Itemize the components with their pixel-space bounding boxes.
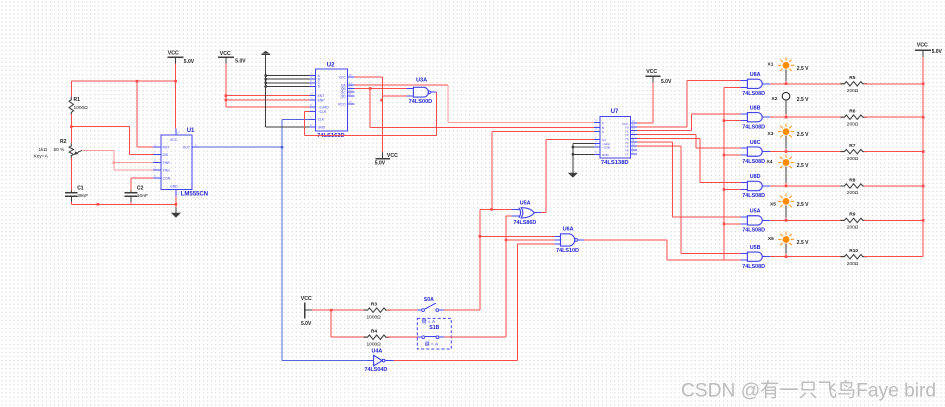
lamp X1 2.5V bbox=[778, 57, 794, 73]
power VCC5 5.0V right bbox=[915, 49, 931, 51]
gate U8B 74LS08D AND bbox=[747, 113, 762, 122]
wire R1 node to U1 DIS bbox=[71, 126, 129, 128]
wire bottom ground bus bbox=[71, 203, 176, 205]
gate U3A 74LS00D NAND bbox=[413, 87, 428, 97]
junction ENP bbox=[225, 99, 228, 102]
gate U5A 74LS08D AND bbox=[747, 216, 762, 225]
junction OUT net bbox=[281, 146, 284, 149]
IC U2 74LS163D counter bbox=[316, 69, 348, 131]
wire S0A up to node bbox=[444, 309, 480, 311]
svg-text:~G2B: ~G2B bbox=[602, 146, 610, 150]
svg-text:5.0V: 5.0V bbox=[661, 79, 672, 85]
wire U5A output to lamp node bbox=[770, 219, 786, 221]
svg-text:VCC: VCC bbox=[168, 50, 179, 56]
wire U1 GND down bbox=[175, 196, 177, 207]
svg-text:1000Ω: 1000Ω bbox=[367, 341, 382, 347]
ground above U2 bbox=[262, 53, 271, 55]
svg-text:R9: R9 bbox=[849, 212, 855, 218]
svg-text:74LS138D: 74LS138D bbox=[601, 160, 629, 166]
svg-text:200Ω: 200Ω bbox=[847, 121, 859, 127]
svg-text:U8C: U8C bbox=[750, 140, 761, 146]
svg-text:1kΩ: 1kΩ bbox=[39, 147, 48, 153]
svg-text:50 %: 50 % bbox=[54, 147, 66, 153]
svg-text:S0A: S0A bbox=[424, 297, 434, 303]
lamp X6 2.5V bbox=[778, 232, 794, 248]
svg-text:1000Ω: 1000Ω bbox=[74, 105, 89, 111]
svg-text:200Ω: 200Ω bbox=[847, 88, 859, 94]
pins U1 bbox=[153, 146, 161, 148]
lamp X3 2.5V bbox=[778, 124, 794, 140]
resistor R3 1000ohm bbox=[364, 308, 391, 312]
svg-text:GND: GND bbox=[318, 126, 326, 130]
wire lamp node to R7 bbox=[786, 151, 845, 153]
svg-text:5.0V: 5.0V bbox=[235, 59, 246, 65]
junction VCC1 rail bbox=[174, 80, 177, 83]
capacitor C1 39nF bbox=[65, 192, 78, 194]
wire QA to U7 A bbox=[355, 84, 449, 86]
svg-text:TRG: TRG bbox=[163, 168, 171, 172]
svg-text:74LS08D: 74LS08D bbox=[742, 91, 765, 97]
svg-text:74LS08D: 74LS08D bbox=[742, 264, 765, 270]
svg-text:OUT: OUT bbox=[183, 146, 191, 150]
resistor R1 1000ohm bbox=[69, 97, 73, 115]
wire S0A net to U6A top input bbox=[480, 235, 555, 237]
power VCC1 5.0V bbox=[168, 56, 184, 58]
resistor R5 200ohm bbox=[840, 82, 867, 86]
wire CON to C2 bbox=[131, 177, 153, 179]
svg-text:U8D: U8D bbox=[750, 174, 761, 180]
wire R5 to VCC rail bbox=[864, 83, 923, 85]
svg-text:LM555CN: LM555CN bbox=[181, 192, 208, 198]
svg-text:GND: GND bbox=[602, 153, 610, 157]
wire U6A output distribution vertical bbox=[723, 87, 725, 260]
wire CLR reset loop from U3A bbox=[305, 111, 310, 113]
gate U5A 74LS86D XOR bbox=[519, 208, 521, 218]
junction rail RST branch bbox=[136, 80, 139, 83]
svg-text:VCC: VCC bbox=[301, 296, 312, 302]
svg-text:VCC: VCC bbox=[646, 69, 657, 75]
wire U8D output to lamp node bbox=[770, 185, 786, 187]
svg-text:C1: C1 bbox=[77, 185, 84, 191]
svg-text:U4A: U4A bbox=[372, 349, 383, 355]
svg-text:74LS04D: 74LS04D bbox=[365, 367, 388, 373]
gate U8D 74LS08D AND bbox=[747, 181, 762, 190]
svg-text:U7: U7 bbox=[611, 109, 619, 115]
switch S1B key A dashed box bbox=[417, 318, 451, 349]
lamp X2 2.5V bbox=[782, 92, 790, 100]
svg-text:QD: QD bbox=[341, 95, 347, 99]
wire VCC4 to R3 bbox=[312, 309, 368, 311]
wire R9 to VCC rail bbox=[864, 219, 923, 221]
wire lamp node to R10 bbox=[786, 256, 845, 258]
wire QB to U3A and U7 B bbox=[355, 87, 407, 89]
wire U6A output to U5B bbox=[584, 239, 667, 241]
svg-text:2.5 V: 2.5 V bbox=[797, 97, 809, 103]
svg-text:VCC: VCC bbox=[387, 153, 398, 159]
resistor R4 1000ohm bbox=[364, 335, 391, 339]
svg-text:ENP: ENP bbox=[318, 98, 326, 102]
svg-text:39nF: 39nF bbox=[77, 193, 88, 199]
svg-text:S1B: S1B bbox=[429, 325, 439, 331]
svg-text:U8B: U8B bbox=[750, 105, 761, 111]
wire R1 bottom bbox=[70, 114, 72, 127]
gate U8C 74LS08D AND bbox=[747, 147, 762, 156]
svg-text:74LS08D: 74LS08D bbox=[742, 228, 765, 234]
wire R10 to VCC rail bbox=[864, 256, 923, 258]
wire RST feed bbox=[136, 81, 138, 147]
wire right VCC rail bbox=[922, 57, 924, 257]
svg-text:R8: R8 bbox=[849, 177, 855, 183]
junction S0A net at U6A input bbox=[479, 235, 482, 238]
wire XOR output to U7 G1 bbox=[541, 212, 546, 214]
IC U1 LM555CN timer bbox=[161, 135, 192, 189]
wire lamp node to R9 bbox=[786, 219, 845, 221]
svg-text:R5: R5 bbox=[849, 75, 855, 81]
svg-text:200Ω: 200Ω bbox=[847, 190, 859, 196]
switch S0A key A bbox=[418, 309, 422, 311]
wire R8 to VCC rail bbox=[864, 185, 923, 187]
wire R6 to VCC rail bbox=[864, 116, 923, 118]
svg-text:U1: U1 bbox=[187, 128, 195, 134]
svg-text:R4: R4 bbox=[371, 329, 377, 335]
svg-text:200Ω: 200Ω bbox=[847, 156, 859, 162]
svg-text:C2: C2 bbox=[137, 185, 144, 191]
wire U8A output to lamp node bbox=[770, 83, 786, 85]
svg-text:U5A: U5A bbox=[750, 209, 761, 215]
junction U1 GND node bbox=[175, 203, 178, 206]
lamp X5 2.5V bbox=[778, 193, 794, 209]
wire U1 OUT blue net bbox=[200, 146, 283, 148]
lamp X4 2.5V bbox=[778, 155, 794, 171]
wire C2 bottom bbox=[130, 196, 132, 202]
power VCC2 5.0V bbox=[218, 56, 234, 58]
svg-text:15: 15 bbox=[349, 100, 353, 104]
gate U6A 74LS10D NAND3 bbox=[561, 234, 575, 246]
wire VCC2 to ENT ENP LOAD bbox=[225, 64, 227, 108]
svg-text:74LS163D: 74LS163D bbox=[317, 133, 345, 139]
wire ground to U2 GND bbox=[266, 126, 310, 128]
svg-text:CLK: CLK bbox=[318, 118, 325, 122]
svg-text:X4: X4 bbox=[767, 159, 773, 165]
svg-text:R2: R2 bbox=[60, 139, 67, 145]
junction QB branch bbox=[369, 87, 372, 90]
wire node to XOR top input bbox=[492, 208, 512, 210]
svg-text:GND: GND bbox=[170, 185, 178, 189]
wires U7 Y0-Y5 to AND gates bbox=[637, 126, 687, 128]
svg-text:74LS08D: 74LS08D bbox=[742, 193, 765, 199]
svg-text:2.5 V: 2.5 V bbox=[797, 132, 809, 138]
wire ground bus to U2 inputs bbox=[265, 54, 267, 127]
wire VCC branch to U3A input bbox=[383, 95, 407, 97]
svg-text:R1: R1 bbox=[74, 97, 81, 103]
junction S1B net at U6A input bbox=[505, 239, 508, 242]
svg-text:X5: X5 bbox=[770, 202, 776, 208]
svg-text:R6: R6 bbox=[849, 109, 855, 115]
wire U5B output to lamp node bbox=[770, 256, 786, 258]
svg-text:2.5 V: 2.5 V bbox=[797, 66, 809, 72]
svg-text:U8A: U8A bbox=[750, 72, 761, 78]
svg-text:DIS: DIS bbox=[163, 153, 170, 157]
inverter U4A 74LS04D bbox=[367, 360, 373, 362]
wire U8C output to lamp node bbox=[770, 151, 786, 153]
svg-text:R3: R3 bbox=[371, 301, 377, 307]
svg-text:Y7: Y7 bbox=[625, 152, 629, 156]
resistor R9 200ohm bbox=[840, 218, 867, 222]
svg-text:VCC: VCC bbox=[170, 138, 178, 142]
svg-text:200Ω: 200Ω bbox=[847, 225, 859, 231]
svg-text:74LS86D: 74LS86D bbox=[514, 220, 537, 226]
svg-text:Key=A: Key=A bbox=[34, 153, 49, 159]
ground under U1 bbox=[175, 207, 177, 212]
svg-text:2.5 V: 2.5 V bbox=[797, 202, 809, 208]
potentiometer R2 1kohm 50% Key=A bbox=[69, 143, 73, 158]
svg-text:R7: R7 bbox=[849, 143, 855, 149]
capacitor C2 10nF bbox=[125, 192, 138, 194]
wire lamp node to R5 bbox=[786, 83, 845, 85]
svg-text:R10: R10 bbox=[849, 248, 858, 254]
svg-text:5.0V: 5.0V bbox=[932, 49, 943, 55]
ground near U7 bbox=[573, 142, 594, 144]
svg-text:10nF: 10nF bbox=[137, 193, 148, 199]
svg-text:X6: X6 bbox=[768, 236, 774, 242]
power VCC3 5.0V below U2 bbox=[382, 152, 384, 158]
svg-text:键 = A: 键 = A bbox=[425, 340, 439, 347]
svg-text:U5A: U5A bbox=[520, 200, 531, 206]
svg-text:5.0V: 5.0V bbox=[301, 321, 312, 327]
IC U7 74LS138D decoder bbox=[600, 116, 630, 158]
svg-text:CON: CON bbox=[163, 177, 171, 181]
svg-text:键 = A: 键 = A bbox=[422, 318, 436, 325]
svg-text:74LS00D: 74LS00D bbox=[409, 99, 433, 105]
svg-text:74LS08D: 74LS08D bbox=[742, 159, 765, 165]
junction R1 bottom node bbox=[70, 125, 73, 128]
wire lamp node to R8 bbox=[786, 185, 845, 187]
wire U8B output to lamp node bbox=[770, 116, 786, 118]
wire U4A output to U6A bottom input bbox=[394, 360, 518, 362]
wire R2 wiper to THR TRG bbox=[82, 149, 114, 151]
svg-text:VCC: VCC bbox=[220, 51, 231, 57]
wire lamp node to R6 bbox=[786, 116, 845, 118]
pins U7 bbox=[594, 121, 600, 123]
pins U2 bbox=[309, 75, 315, 77]
svg-text:U3A: U3A bbox=[416, 77, 427, 83]
svg-text:THR: THR bbox=[163, 161, 171, 165]
svg-text:1000Ω: 1000Ω bbox=[367, 314, 382, 320]
svg-text:VCC: VCC bbox=[917, 42, 928, 48]
power VCC6 5.0V above U7 bbox=[646, 75, 661, 77]
svg-text:VCC: VCC bbox=[339, 75, 347, 79]
wire to R4 bbox=[330, 310, 332, 337]
wire R2 bottom to C1 bbox=[70, 158, 72, 191]
wire VCC1 to U1 VCC pin bbox=[175, 64, 177, 129]
wire S1B to XOR bottom and U6A bbox=[444, 336, 506, 338]
junction key node bbox=[490, 208, 493, 211]
svg-text:200Ω: 200Ω bbox=[847, 261, 859, 267]
junction wiper node bbox=[113, 161, 116, 164]
power VCC4 5.0V bottom bbox=[304, 303, 306, 319]
svg-text:2.5 V: 2.5 V bbox=[797, 240, 809, 246]
wire U2 VCC pin to VCC3 bbox=[355, 76, 383, 78]
gate U8A 74LS08D AND bbox=[747, 79, 762, 88]
svg-text:74LS08D: 74LS08D bbox=[742, 124, 765, 130]
resistor R6 200ohm bbox=[840, 115, 867, 119]
svg-text:CSDN @有一只飞鸟Faye bird: CSDN @有一只飞鸟Faye bird bbox=[681, 380, 936, 402]
wire node to U7 C bbox=[491, 131, 493, 209]
junction bottom wire bbox=[97, 203, 100, 206]
svg-text:RCO: RCO bbox=[338, 102, 346, 106]
svg-text:5.0V: 5.0V bbox=[184, 59, 195, 65]
junction VCC net bbox=[380, 99, 383, 102]
svg-text:5.0V: 5.0V bbox=[375, 161, 386, 167]
svg-text:RST: RST bbox=[163, 146, 171, 150]
svg-text:X2: X2 bbox=[772, 96, 778, 102]
svg-text:U5B: U5B bbox=[750, 245, 761, 251]
wire R7 to VCC rail bbox=[864, 151, 923, 153]
svg-text:2.5 V: 2.5 V bbox=[797, 163, 809, 169]
junction ENT bbox=[225, 94, 228, 97]
wire top rail bbox=[71, 80, 175, 82]
svg-text:X3: X3 bbox=[768, 131, 774, 137]
wire R1 node to R2 top bbox=[70, 127, 72, 144]
wire VCC6 to U7 VCC bbox=[652, 82, 654, 123]
svg-text:~CLR: ~CLR bbox=[318, 110, 327, 114]
resistor R8 200ohm bbox=[840, 184, 867, 188]
svg-text:U2: U2 bbox=[327, 62, 335, 68]
svg-text:U6A: U6A bbox=[563, 226, 574, 232]
svg-text:74LS10D: 74LS10D bbox=[556, 248, 579, 254]
svg-text:11: 11 bbox=[349, 92, 352, 96]
resistor R7 200ohm bbox=[840, 149, 867, 153]
svg-text:X1: X1 bbox=[768, 61, 774, 67]
junction R4 branch bbox=[330, 309, 333, 312]
wire rail to R1 top bbox=[70, 81, 72, 97]
gate U5B 74LS08D AND bbox=[747, 252, 762, 261]
resistor R10 200ohm bbox=[840, 255, 867, 259]
wire C1 bottom bbox=[70, 196, 72, 202]
svg-text:16: 16 bbox=[349, 73, 353, 77]
